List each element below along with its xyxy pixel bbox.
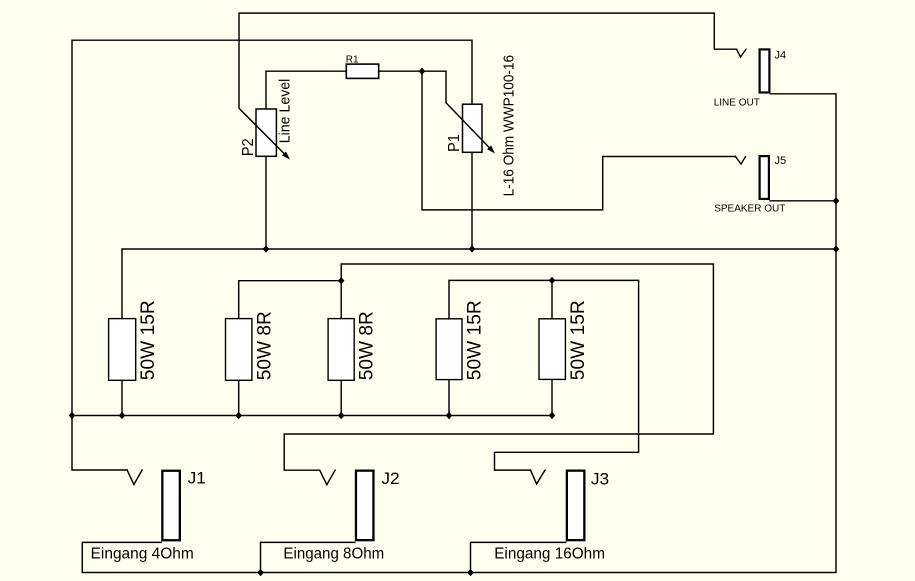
svg-text:50W 8R: 50W 8R (356, 311, 378, 380)
svg-text:R1: R1 (346, 54, 359, 65)
svg-text:J1: J1 (188, 469, 206, 488)
svg-text:L-16 Ohm WWP100-16: L-16 Ohm WWP100-16 (502, 55, 518, 197)
svg-text:50W 15R: 50W 15R (567, 300, 589, 380)
svg-text:J4: J4 (775, 49, 787, 61)
svg-text:50W 15R: 50W 15R (464, 300, 486, 380)
svg-text:P2: P2 (240, 138, 257, 156)
svg-text:Line Level: Line Level (277, 79, 293, 144)
svg-text:Eingang 8Ohm: Eingang 8Ohm (283, 546, 384, 563)
svg-text:J3: J3 (591, 470, 609, 489)
svg-text:J2: J2 (381, 469, 399, 488)
svg-text:SPEAKER OUT: SPEAKER OUT (714, 204, 785, 215)
svg-text:J5: J5 (775, 155, 787, 167)
svg-text:50W 15R: 50W 15R (137, 300, 159, 380)
svg-text:LINE OUT: LINE OUT (714, 98, 760, 109)
svg-text:Eingang 16Ohm: Eingang 16Ohm (494, 546, 605, 563)
svg-text:P1: P1 (446, 134, 463, 152)
svg-text:50W 8R: 50W 8R (253, 311, 275, 380)
svg-text:Eingang 4Ohm: Eingang 4Ohm (91, 546, 194, 563)
